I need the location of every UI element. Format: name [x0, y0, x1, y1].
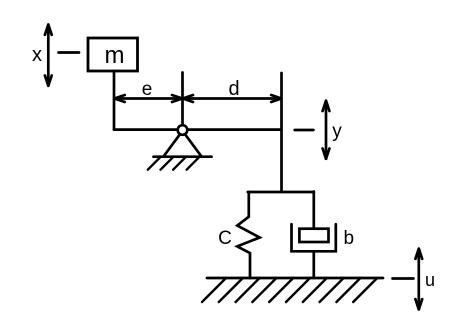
damper b rod top — [312, 192, 315, 229]
damper cylinder — [292, 224, 336, 251]
ground hatching — [202, 278, 377, 302]
pivot circle — [178, 125, 188, 135]
spring C — [237, 192, 260, 278]
svg-text:e: e — [142, 79, 153, 100]
ground line — [207, 277, 383, 280]
displacement arrow u — [415, 249, 422, 310]
svg-text:d: d — [228, 78, 239, 100]
rod from mass to lever — [113, 71, 116, 130]
tick for y — [295, 129, 314, 132]
top bar of spring-damper — [248, 191, 314, 194]
lever bar — [114, 128, 282, 131]
svg-text:C: C — [218, 228, 232, 249]
svg-text:x: x — [32, 44, 42, 66]
tick for x — [59, 51, 80, 54]
right rod from lever down — [280, 73, 283, 192]
damper piston — [299, 229, 328, 242]
svg-text:b: b — [344, 228, 355, 249]
dimension e — [114, 95, 182, 102]
svg-text:m: m — [105, 42, 125, 69]
dimension d — [183, 95, 282, 102]
displacement arrow y — [323, 101, 330, 159]
tick for u — [393, 277, 414, 280]
pivot hatching — [148, 157, 200, 170]
damper rod bottom — [312, 251, 315, 278]
pivot extension line — [181, 73, 184, 126]
svg-text:y: y — [332, 121, 342, 142]
mass m box — [88, 38, 138, 71]
pivot ground line — [154, 155, 212, 158]
displacement arrow x — [45, 25, 52, 86]
pivot triangle — [164, 134, 202, 156]
svg-text:u: u — [425, 270, 435, 290]
